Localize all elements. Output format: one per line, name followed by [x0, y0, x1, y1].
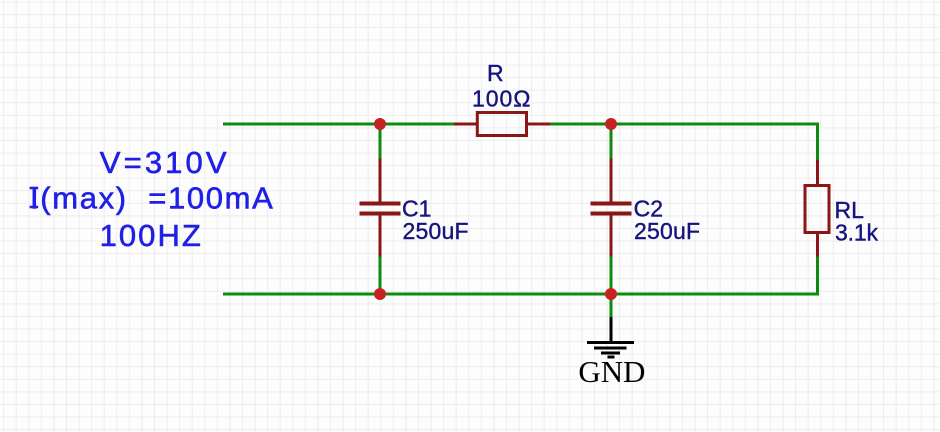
resistor R [454, 113, 550, 136]
annotation I serif top [30, 187, 39, 190]
wire C2 top stub [610, 123, 613, 161]
junction top C1 node [374, 118, 386, 130]
wire bottom rail [223, 293, 819, 296]
wire C1 top stub [379, 123, 382, 161]
resistor RL [805, 160, 829, 257]
wire GND stub [610, 294, 613, 318]
svg-text:3.1k: 3.1k [835, 219, 879, 245]
junction bottom C2 GND node [605, 288, 617, 300]
svg-text:R: R [487, 60, 504, 86]
wire C1 bottom stub [379, 255, 382, 294]
junction bottom C1 node [374, 288, 386, 300]
svg-text:GND: GND [578, 354, 645, 389]
svg-text:250uF: 250uF [403, 218, 469, 244]
junction top C2 node [605, 118, 617, 130]
svg-text:100HZ: 100HZ [100, 218, 201, 253]
svg-text:I(max) =100mA: I(max) =100mA [30, 180, 273, 215]
wire top rail left [223, 123, 456, 126]
annotation I serif bottom [30, 206, 39, 209]
wire right vertical upper [816, 123, 819, 162]
wire top rail right [548, 123, 819, 126]
ground symbol [587, 317, 634, 357]
wire C2 bottom stub [610, 255, 613, 294]
svg-text:250uF: 250uF [634, 218, 700, 244]
capacitor C2 [591, 159, 632, 257]
wire right vertical lower [816, 255, 819, 296]
svg-text:100Ω: 100Ω [472, 86, 531, 112]
capacitor C1 [360, 159, 401, 257]
